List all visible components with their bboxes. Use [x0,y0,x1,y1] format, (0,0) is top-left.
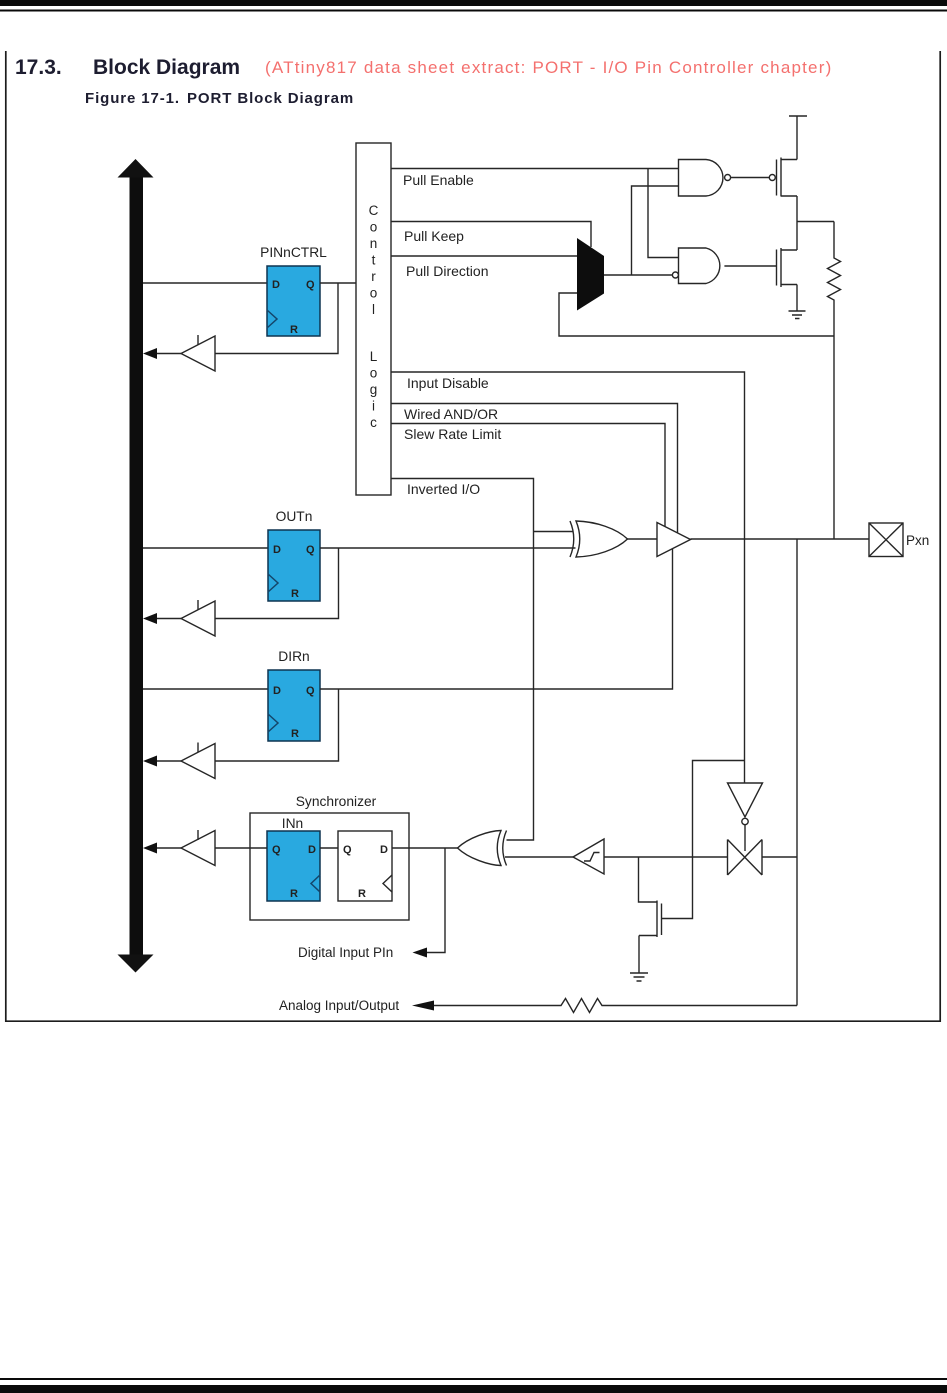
analog series resistor R2 [557,999,604,1013]
svg-text:Q: Q [272,844,281,856]
svg-text:r: r [371,269,376,284]
svg-text:R: R [358,888,366,900]
wire pull keep [391,222,591,248]
bus top arrowhead [118,159,154,178]
wire bus to DIRn D [143,688,268,690]
page bottom thin rule [0,1378,947,1380]
tri-state buffer B1 [181,335,215,371]
transmission gate T1 [728,840,763,876]
FF2 pin letters [343,844,388,900]
nmos transistor Q2 [777,222,798,312]
ground symbol for Q3 [630,973,648,981]
wire DIRn readback [215,689,339,761]
svg-text:c: c [370,415,377,430]
wire pin column to analog [796,539,798,1006]
wire OUTn Q to xor1 [320,547,576,549]
synchronizer box [250,813,409,920]
svg-text:D: D [380,844,388,856]
svg-text:Q: Q [306,685,315,697]
svg-text:Q: Q [306,279,315,291]
svg-text:D: D [308,844,316,856]
tri-state buffer B5 [181,830,215,866]
wire INn D to FF2 Q [320,847,338,849]
OUTn pin letters [273,544,315,600]
tri-state buffer B3 [181,743,215,779]
PINnCTRL pin letters [272,279,315,336]
wire gate U2 output to nmos gate [724,265,776,267]
svg-text:Synchronizer: Synchronizer [296,794,377,809]
flip-flop OUTn [268,530,320,601]
svg-text:OUTn: OUTn [276,509,313,524]
wire INn Q to buffer B5 [215,847,267,849]
pad Pxn [869,523,903,557]
wire PINnCTRL Q to control logic [320,282,356,284]
pmos transistor Q1 [769,158,797,222]
svg-text:i: i [372,399,375,414]
svg-text:PINnCTRL: PINnCTRL [260,245,327,260]
arrow digital input pin [413,948,428,958]
schmitt buffer B6 [573,839,604,874]
svg-text:Pull Keep: Pull Keep [404,228,464,244]
DIRn pin letters [273,685,315,740]
svg-text:D: D [273,544,281,556]
wire slew rate limit [391,424,665,528]
svg-text:DIRn: DIRn [278,649,309,664]
nmos transistor Q3 [639,901,662,974]
svg-text:Slew Rate Limit: Slew Rate Limit [404,426,501,442]
wire inverted i/o branch to xor1 [534,531,574,533]
wire wired and/or [391,404,678,533]
svg-text:17.3.: 17.3. [15,56,62,79]
tri-state buffer B2 [181,600,215,636]
svg-text:Wired AND/OR: Wired AND/OR [404,406,498,422]
output driver buffer B4 [657,523,691,557]
wire inverted i/o [391,479,534,841]
svg-text:Block Diagram: Block Diagram [93,56,240,79]
svg-text:L: L [370,349,378,364]
wire input disable branch to clamp gate [662,761,745,919]
wire buffer B5 to bus with arrow [143,843,181,854]
wire schmitt input line [604,856,728,858]
xor gate X2 [458,831,507,866]
svg-text:(ATtiny817 data sheet extract:: (ATtiny817 data sheet extract: PORT - I/… [265,58,832,77]
svg-text:n: n [370,236,378,251]
wire analog line right [604,1005,797,1007]
svg-text:Inverted I/O: Inverted I/O [407,481,480,497]
wire tgate to pin column [762,856,797,858]
svg-text:l: l [372,302,375,317]
svg-text:INn: INn [282,816,303,831]
figure frame border [6,51,940,1021]
svg-text:Pxn: Pxn [906,533,929,548]
wire buffer B3 to bus with arrow [143,756,181,767]
page top thin rule [0,10,947,12]
INn pin letters [272,844,316,900]
wire DIRn Q to output driver enable [320,549,673,689]
bus vertical bar [130,176,144,956]
flip-flop PINnCTRL [267,266,320,336]
flip-flop FF2 [338,831,392,901]
control logic box U0 [356,143,391,495]
wire digital input pin [426,848,445,953]
svg-text:C: C [369,203,379,218]
arrow analog input/output [412,1001,434,1011]
svg-text:t: t [372,253,376,268]
wire clamp nmos drain [639,857,658,902]
svg-text:Pull Enable: Pull Enable [403,172,474,188]
mux M1 [577,238,604,311]
svg-text:R: R [291,728,299,740]
wire bus to OUTn D [143,547,268,549]
wire mux output branch to nand U1 [632,186,679,275]
wire drain junction to resistor [797,221,834,223]
svg-text:Input Disable: Input Disable [407,375,489,391]
flip-flop DIRn [268,670,320,741]
svg-text:Q: Q [306,544,315,556]
page top thick bar [0,0,947,6]
svg-text:o: o [370,220,378,235]
svg-text:R: R [290,324,298,336]
svg-text:Pull Direction: Pull Direction [406,263,488,279]
bus bottom arrowhead [118,955,154,973]
wire mux output [604,274,672,276]
and gate U2 with inverted input [672,248,719,284]
xor gate X1 [570,521,628,557]
svg-text:Figure 17-1.PORT Block Diagram: Figure 17-1.PORT Block Diagram [85,90,354,107]
svg-text:D: D [273,685,281,697]
flip-flop INn [267,831,320,901]
wire resistor to pin line [833,336,835,539]
wire pull keep feedback [559,293,834,336]
ground symbol for Q2 [789,311,806,319]
wire nand U1 output to pmos gate [731,177,770,179]
wire input disable [391,372,745,761]
wire bus to PINnCTRL D [143,282,267,284]
wire FF2 D to xor2 output [392,847,458,849]
svg-text:R: R [291,588,299,600]
page bottom thick bar [0,1385,947,1393]
wire xor2 lower input from schmitt [505,856,573,858]
inverter U3 [728,783,763,825]
wire analog line left [433,1005,557,1007]
svg-text:Digital Input PIn: Digital Input PIn [298,945,393,960]
svg-text:R: R [290,888,298,900]
wire buffer B1 to bus with arrow [143,348,181,359]
vdd supply symbol [789,116,807,160]
control logic box text [369,203,379,430]
pull-up resistor R1 [828,222,841,337]
svg-text:o: o [370,286,378,301]
svg-text:D: D [272,279,280,291]
wire inverter to tgate [744,825,746,851]
wire OUTn readback [215,548,339,619]
wire pin line [691,538,870,540]
svg-text:o: o [370,366,378,381]
wire buffer B2 to bus with arrow [143,613,181,624]
wire pull direction [391,255,577,257]
svg-text:Q: Q [343,844,352,856]
wire PINnCTRL readback [215,283,338,354]
wire pull enable [391,168,679,170]
nand gate U1 [679,160,731,197]
wire xor1 output to driver [628,538,658,540]
wire input disable to inverter [744,761,746,784]
svg-text:g: g [370,382,378,397]
svg-text:Analog Input/Output: Analog Input/Output [279,998,399,1013]
wire pull enable branch to gate2 [648,169,679,258]
